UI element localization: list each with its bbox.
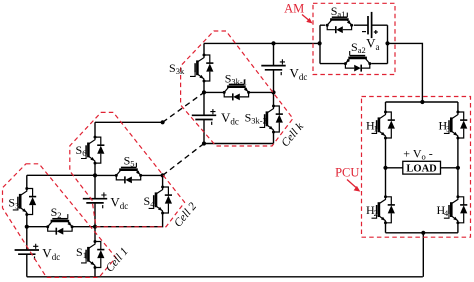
transistor Sa2 (mirrored) — [344, 51, 371, 72]
wire: rail2 (cell1 right / cell2 left) — [94, 122, 96, 276]
transistor S3k-2 — [260, 105, 283, 134]
node cell1 top / rail2 — [93, 173, 97, 177]
node cellk bottom left — [202, 141, 206, 145]
wire: cellk left rail — [203, 43, 205, 143]
LOAD box — [403, 161, 441, 174]
cell k boundary box — [181, 31, 293, 146]
cell 2 boundary box — [70, 112, 185, 226]
wire: S2 row — [27, 213, 163, 227]
node LOAD row right — [456, 166, 460, 170]
arrow AM — [302, 15, 310, 21]
wire: PCU right rail — [457, 102, 459, 233]
transistor S5 — [115, 163, 142, 184]
node AM input — [318, 41, 322, 45]
dashed continuation lower — [163, 144, 204, 176]
transistor H2 — [372, 195, 395, 224]
wire: bottom return bus — [27, 276, 423, 278]
node cell2 top right — [161, 120, 165, 124]
node LOAD row left — [383, 166, 387, 170]
transistor S2 — [46, 214, 73, 235]
wire: S5 row — [95, 174, 163, 176]
wire: cellk bottom row — [204, 143, 274, 145]
arrow PCU — [347, 180, 356, 188]
wire: rail3 segment with S4 — [162, 175, 164, 187]
capacitor Vdc top — [261, 59, 285, 75]
wire: S3k-1 row — [204, 91, 274, 93]
node PCU bottom center — [421, 231, 425, 235]
wire: PCU top row — [386, 101, 458, 103]
svg-text:+ Vo -: + Vo - — [403, 147, 432, 162]
capacitor Vdc cellk — [192, 109, 216, 125]
transistor S4 — [149, 186, 172, 215]
node AM output — [385, 41, 389, 45]
dashed continuation upper — [163, 92, 204, 122]
node S2 row left — [25, 225, 29, 229]
wire: AM bottom branch — [320, 63, 388, 65]
node cellk top right — [271, 41, 275, 45]
capacitor Vdc cell1 — [15, 244, 39, 260]
wire: AM left branch rail — [319, 25, 321, 63]
wire: PCU bottom row — [386, 232, 458, 234]
node S2 row / rail2 — [93, 225, 97, 229]
AM boundary box — [313, 3, 395, 74]
transistor Sa1 — [326, 13, 353, 34]
transistor S3k-1 — [223, 80, 250, 101]
cell 1 boundary box — [3, 164, 116, 278]
transistor H3 — [444, 111, 467, 140]
transistor H1 — [372, 111, 395, 140]
node S5 row right — [161, 173, 165, 177]
wire: cellk top row — [204, 42, 320, 44]
svg-text:LOAD: LOAD — [406, 163, 437, 174]
wire: cell1 left rail — [26, 175, 28, 276]
transistor S6 — [81, 136, 104, 165]
node PCU top center — [420, 100, 424, 104]
wire: cell1 top row — [27, 174, 95, 176]
wire: AM output to PCU — [388, 43, 423, 102]
wire: PCU bottom feed — [422, 233, 424, 277]
wire: cell2 top row — [95, 121, 163, 123]
svg-text:PCU: PCU — [335, 165, 359, 179]
capacitor Va — [362, 12, 378, 38]
node cellk mid right — [271, 90, 275, 94]
wire: PCU left rail — [385, 102, 387, 233]
wire: AM top branch — [320, 24, 388, 26]
wire: cellk right rail — [273, 43, 275, 143]
wire: AM right branch rail — [387, 25, 389, 63]
transistor S1 — [81, 240, 104, 269]
capacitor Vdc cell2 — [83, 192, 107, 208]
transistor H4 — [444, 195, 467, 224]
node cellk mid left — [202, 90, 206, 94]
wire: LOAD row — [386, 167, 458, 169]
transistor S3k — [190, 54, 213, 83]
transistor S3 — [13, 187, 36, 216]
svg-text:AM: AM — [284, 2, 304, 16]
PCU boundary box — [362, 97, 471, 238]
